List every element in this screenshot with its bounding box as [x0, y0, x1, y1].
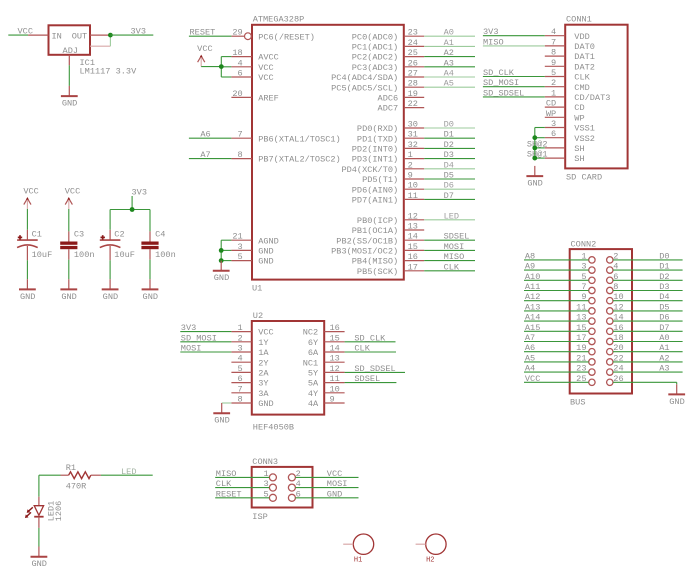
svg-text:PD1(TXD): PD1(TXD)	[357, 134, 398, 144]
svg-text:D4: D4	[444, 160, 454, 170]
svg-text:12: 12	[408, 211, 418, 221]
svg-text:SDSEL: SDSEL	[444, 232, 470, 242]
pin 10 U2	[324, 384, 344, 394]
svg-text:11: 11	[576, 302, 586, 312]
pin SH@1 CONN1	[527, 150, 565, 160]
pin 16 / net MISO	[404, 252, 475, 262]
svg-text:28: 28	[408, 79, 418, 89]
svg-text:NC1: NC1	[303, 358, 318, 368]
pin 28 / net A5	[404, 79, 475, 89]
svg-text:19: 19	[576, 343, 586, 353]
svg-text:C2: C2	[114, 230, 124, 240]
pin 7 U2	[231, 384, 251, 394]
svg-text:VSS2: VSS2	[574, 134, 595, 144]
pin 11 CONN2 / net A13	[524, 302, 595, 314]
pin 7 CONN1	[545, 37, 565, 47]
svg-text:2: 2	[613, 251, 618, 261]
svg-text:PC3(ADC3): PC3(ADC3)	[352, 63, 398, 73]
svg-text:RESET: RESET	[216, 489, 242, 499]
wire net CLK from U2	[345, 344, 396, 354]
svg-text:10: 10	[408, 181, 418, 191]
ground C2	[102, 279, 119, 302]
svg-text:14: 14	[408, 232, 418, 242]
svg-text:GND: GND	[62, 99, 77, 109]
svg-text:CLK: CLK	[444, 262, 460, 272]
net label RESET	[190, 28, 216, 38]
pin 5 U2	[231, 364, 251, 374]
svg-text:A1: A1	[444, 38, 454, 48]
svg-text:CONN2: CONN2	[571, 239, 597, 249]
svg-text:D2: D2	[659, 272, 669, 282]
pin 14 U2	[324, 344, 344, 354]
svg-text:3: 3	[581, 262, 586, 272]
wire net 3V3 to CONN1	[483, 27, 545, 37]
VCC power symbol (C3)	[65, 186, 80, 209]
svg-text:CONN3: CONN3	[252, 457, 278, 467]
ground U1	[213, 261, 230, 284]
svg-text:14: 14	[330, 344, 340, 354]
svg-text:24: 24	[408, 38, 418, 48]
svg-text:GND: GND	[214, 273, 229, 283]
pin 15 U2	[324, 333, 344, 343]
svg-text:A7: A7	[525, 333, 535, 343]
wire RESET	[189, 35, 232, 37]
svg-text:25: 25	[408, 48, 418, 58]
svg-text:PC1(ADC1): PC1(ADC1)	[352, 43, 398, 53]
svg-text:2: 2	[296, 469, 301, 479]
svg-text:31: 31	[408, 130, 418, 140]
svg-text:3V3: 3V3	[483, 27, 498, 37]
svg-text:A8: A8	[525, 251, 535, 261]
svg-text:LED: LED	[121, 467, 136, 477]
svg-text:PB6(XTAL1/TOSC1): PB6(XTAL1/TOSC1)	[258, 134, 341, 144]
pin 8 CONN2 / net D3	[607, 282, 683, 294]
svg-text:PD4(XCK/T0): PD4(XCK/T0)	[341, 165, 398, 175]
junction 3V3	[108, 33, 113, 38]
svg-text:D0: D0	[444, 120, 454, 130]
svg-text:3: 3	[551, 119, 556, 129]
buffer U2 HEF4050B	[252, 311, 324, 432]
pin 2 U2	[231, 333, 251, 343]
pin 22 CONN2 / net A2	[607, 353, 683, 365]
svg-text:A6: A6	[525, 343, 535, 353]
pin 11 / net D7	[404, 191, 475, 201]
pin 6 CONN3 / net GND	[288, 489, 358, 501]
svg-text:21: 21	[232, 232, 242, 242]
wire net SDSEL from U2	[345, 374, 397, 384]
svg-text:26: 26	[408, 58, 418, 68]
pin CD CONN1	[545, 99, 565, 109]
net label 3V3	[131, 27, 146, 37]
svg-text:17: 17	[576, 333, 586, 343]
svg-text:30: 30	[408, 120, 418, 130]
svg-text:2Y: 2Y	[258, 358, 268, 368]
svg-text:PC6(/RESET): PC6(/RESET)	[258, 32, 315, 42]
svg-text:ADJ: ADJ	[63, 46, 78, 56]
svg-text:4: 4	[238, 58, 243, 68]
svg-text:SDSEL: SDSEL	[354, 374, 380, 384]
pin 12 / net LED	[404, 211, 475, 221]
svg-text:6: 6	[296, 489, 301, 499]
svg-text:3: 3	[238, 344, 243, 354]
pin 23 / net A0	[404, 28, 475, 38]
svg-text:PB3(MOSI/OC2): PB3(MOSI/OC2)	[331, 247, 398, 257]
svg-text:C4: C4	[155, 230, 165, 240]
svg-text:PD0(RXD): PD0(RXD)	[357, 124, 398, 134]
pin 1 CONN1	[545, 88, 565, 98]
pin 6 CONN1	[545, 129, 565, 139]
svg-text:D5: D5	[444, 171, 454, 181]
svg-text:9: 9	[581, 292, 586, 302]
svg-text:24: 24	[613, 364, 623, 374]
pin 26 / net A3	[404, 58, 475, 68]
svg-text:ISP: ISP	[252, 512, 267, 522]
pin 19 CONN2 / net A6	[524, 343, 595, 355]
svg-text:15: 15	[408, 242, 418, 252]
pin 20 AREF	[231, 89, 252, 99]
svg-text:A6: A6	[200, 130, 210, 140]
wire net SD_CLK to CONN1	[483, 68, 545, 78]
svg-text:18: 18	[613, 333, 623, 343]
svg-text:SD_CLK: SD_CLK	[354, 333, 386, 343]
svg-text:CMD: CMD	[574, 83, 589, 93]
ground C4	[142, 279, 159, 302]
pin OUT2 feedback	[90, 35, 110, 46]
net label 3V3 (caps)	[132, 187, 147, 197]
svg-text:21: 21	[576, 353, 586, 363]
svg-text:5A: 5A	[308, 379, 319, 389]
svg-text:PB2(SS/OC1B): PB2(SS/OC1B)	[336, 236, 398, 246]
wire net SD_SDSEL from U2	[345, 364, 405, 374]
svg-text:MOSI: MOSI	[181, 344, 202, 354]
pin 3 U2	[231, 344, 251, 354]
svg-text:A10: A10	[525, 272, 540, 282]
svg-text:1: 1	[264, 469, 269, 479]
wire R1 to LED1	[38, 475, 40, 497]
svg-text:LED: LED	[444, 211, 459, 221]
svg-text:MOSI: MOSI	[327, 479, 348, 489]
wire 3V3 output	[110, 34, 153, 36]
svg-text:A14: A14	[525, 313, 540, 323]
pin 14 / net SDSEL	[404, 232, 475, 242]
ground C3	[60, 279, 77, 302]
pin SH@2 CONN1	[527, 139, 565, 149]
svg-text:H1: H1	[354, 557, 362, 565]
svg-text:GND: GND	[258, 247, 273, 257]
svg-text:C3: C3	[74, 230, 84, 240]
svg-text:CD: CD	[574, 103, 584, 113]
svg-text:RESET: RESET	[190, 28, 216, 38]
svg-text:ATMEGA328P: ATMEGA328P	[253, 15, 305, 25]
svg-text:15: 15	[576, 323, 586, 333]
svg-text:SD_CLK: SD_CLK	[483, 68, 515, 78]
svg-text:PC4(ADC4/SDA): PC4(ADC4/SDA)	[331, 73, 398, 83]
svg-text:C1: C1	[32, 230, 42, 240]
svg-text:VCC: VCC	[525, 374, 540, 384]
svg-text:HEF4050B: HEF4050B	[253, 422, 294, 432]
svg-text:4: 4	[238, 354, 243, 364]
svg-text:PB1(OC1A): PB1(OC1A)	[352, 226, 398, 236]
svg-text:4: 4	[296, 479, 301, 489]
svg-text:LM1117 3.3V: LM1117 3.3V	[80, 67, 138, 77]
wire 3V3 to C2/C4	[110, 196, 150, 210]
svg-text:23: 23	[576, 364, 586, 374]
pin 8 U2	[231, 395, 251, 405]
svg-text:D5: D5	[659, 302, 669, 312]
svg-text:NC2: NC2	[303, 328, 318, 338]
connector CONN1 SD CARD	[565, 15, 627, 183]
svg-text:20: 20	[232, 89, 242, 99]
svg-text:1: 1	[581, 251, 586, 261]
svg-text:PC5(ADC5/SCL): PC5(ADC5/SCL)	[331, 83, 398, 93]
pin 30 / net D0	[404, 120, 475, 130]
pin 21 GND	[221, 232, 252, 242]
pin 6 U2	[231, 374, 251, 384]
svg-text:6: 6	[551, 129, 556, 139]
wire net LED	[101, 467, 153, 477]
svg-text:3: 3	[264, 479, 269, 489]
pin 15 / net MOSI	[404, 242, 475, 252]
pin 5 CONN2 / net A10	[524, 272, 595, 284]
pin 8 / net A7	[189, 150, 252, 160]
svg-text:1: 1	[408, 150, 413, 160]
svg-text:GND: GND	[669, 397, 684, 407]
pin 4 CONN3 / net MOSI	[288, 479, 358, 491]
svg-text:D1: D1	[659, 262, 669, 272]
svg-text:SD_SDSEL: SD_SDSEL	[483, 88, 524, 98]
pin 8 CONN1	[545, 48, 565, 58]
svg-text:1206: 1206	[54, 501, 64, 521]
svg-text:WP: WP	[546, 109, 556, 119]
svg-text:VCC: VCC	[258, 63, 273, 73]
svg-text:5: 5	[238, 252, 243, 262]
svg-text:5: 5	[264, 489, 269, 499]
svg-text:4: 4	[613, 262, 618, 272]
svg-text:18: 18	[232, 48, 242, 58]
svg-text:9: 9	[330, 395, 335, 405]
svg-text:PB0(ICP): PB0(ICP)	[357, 216, 398, 226]
svg-text:16: 16	[330, 323, 340, 333]
pin 4	[231, 58, 252, 68]
VCC power symbol (C1)	[23, 186, 38, 209]
svg-text:MOSI: MOSI	[444, 242, 465, 252]
svg-text:D7: D7	[659, 323, 669, 333]
svg-text:17: 17	[408, 262, 418, 272]
svg-text:U2: U2	[253, 311, 263, 321]
pin 6	[231, 69, 252, 79]
pin 24 CONN2 / net A3	[607, 364, 683, 376]
wire net 3V3 to U2	[180, 323, 231, 333]
LED LED1 1206	[25, 497, 64, 528]
svg-text:MISO: MISO	[216, 469, 237, 479]
svg-text:AGND: AGND	[258, 236, 279, 246]
svg-text:3: 3	[238, 242, 243, 252]
svg-text:IN: IN	[52, 31, 62, 41]
svg-text:D6: D6	[659, 313, 669, 323]
svg-text:PD5(T1): PD5(T1)	[362, 175, 398, 185]
svg-text:12: 12	[330, 364, 340, 374]
pin 7 CONN2 / net A11	[524, 282, 595, 294]
svg-text:PB7(XTAL2/TOSC2): PB7(XTAL2/TOSC2)	[258, 155, 341, 165]
svg-text:11: 11	[408, 191, 418, 201]
svg-text:22: 22	[408, 99, 418, 109]
ground LED1	[31, 547, 48, 570]
svg-text:R1: R1	[66, 463, 76, 473]
svg-text:CLK: CLK	[574, 73, 590, 83]
pin 18 CONN2 / net A0	[607, 333, 683, 345]
svg-text:SD_MOSI: SD_MOSI	[181, 333, 217, 343]
pin 1 U2	[231, 323, 251, 333]
pin 10 / net D6	[404, 181, 475, 191]
svg-text:A0: A0	[444, 28, 454, 38]
svg-text:A2: A2	[659, 353, 669, 363]
svg-text:D7: D7	[444, 191, 454, 201]
connector CONN2 BUS	[570, 239, 632, 407]
pin 13 U2	[324, 354, 344, 364]
net label VCC	[18, 27, 33, 37]
pin 24 / net A1	[404, 38, 475, 48]
svg-text:GND: GND	[20, 292, 35, 302]
svg-text:10: 10	[330, 384, 340, 394]
svg-text:A1: A1	[659, 343, 669, 353]
svg-text:MISO: MISO	[444, 252, 465, 262]
svg-text:14: 14	[613, 313, 623, 323]
wire net MOSI to U2	[180, 344, 231, 354]
svg-text:PD2(INT0): PD2(INT0)	[352, 145, 398, 155]
svg-text:16: 16	[408, 252, 418, 262]
capacitor C2 (polarized)	[100, 210, 135, 280]
pin 6 CONN2 / net D2	[607, 272, 683, 284]
svg-text:A5: A5	[444, 79, 454, 89]
svg-text:23: 23	[408, 28, 418, 38]
svg-text:GND: GND	[258, 257, 273, 267]
pin 9 / net D5	[404, 171, 475, 181]
pin 16 CONN2 / net D7	[607, 323, 683, 335]
pin 14 CONN2 / net D6	[607, 313, 683, 325]
svg-text:GND: GND	[143, 292, 158, 302]
svg-text:1: 1	[238, 323, 243, 333]
svg-text:GND: GND	[527, 179, 542, 189]
svg-text:29: 29	[232, 28, 242, 38]
svg-text:26: 26	[613, 374, 623, 384]
wire net SD_SDSEL to CONN1	[483, 88, 545, 98]
pin 11 U2	[324, 374, 344, 384]
svg-text:D2: D2	[444, 140, 454, 150]
connector CONN3 ISP	[252, 457, 313, 522]
svg-text:2A: 2A	[258, 369, 269, 379]
resistor R1 470R	[39, 463, 101, 491]
svg-text:8: 8	[551, 48, 556, 58]
svg-text:AVCC: AVCC	[258, 53, 279, 63]
svg-text:16: 16	[613, 323, 623, 333]
svg-text:D4: D4	[659, 292, 669, 302]
svg-text:13: 13	[576, 313, 586, 323]
pin 17 CONN2 / net A7	[524, 333, 595, 345]
svg-text:6: 6	[238, 69, 243, 79]
svg-text:10: 10	[613, 292, 623, 302]
svg-text:PB4(MISO): PB4(MISO)	[352, 257, 398, 267]
svg-text:GND: GND	[31, 559, 46, 569]
capacitor C4 (ceramic)	[141, 210, 175, 280]
wire VCC to pins 18/4/6	[201, 57, 231, 77]
svg-text:GND: GND	[327, 489, 342, 499]
wire LED1 to ground	[38, 528, 40, 547]
junction VSS2/SH	[532, 135, 537, 140]
svg-text:22: 22	[613, 353, 623, 363]
svg-text:A0: A0	[659, 333, 669, 343]
svg-text:11: 11	[330, 374, 340, 384]
svg-text:7: 7	[581, 282, 586, 292]
mounting hole H1	[343, 534, 373, 565]
pin 2 CONN2 / net D0	[607, 251, 683, 263]
svg-text:SH: SH	[574, 154, 584, 164]
svg-text:WP: WP	[574, 113, 584, 123]
svg-text:DAT2: DAT2	[574, 62, 595, 72]
svg-text:20: 20	[613, 343, 623, 353]
svg-text:15: 15	[330, 333, 340, 343]
svg-text:7: 7	[238, 130, 243, 140]
svg-text:D3: D3	[659, 282, 669, 292]
svg-text:D1: D1	[444, 130, 454, 140]
svg-text:8: 8	[238, 395, 243, 405]
svg-text:8: 8	[238, 150, 243, 160]
ground IC1	[61, 86, 78, 109]
wire VSS/SH to GND	[535, 128, 545, 159]
pin 15 CONN2 / net A15	[524, 323, 595, 335]
svg-text:VCC: VCC	[327, 469, 342, 479]
svg-text:10uF: 10uF	[114, 250, 135, 260]
pin 32 / net D2	[404, 140, 475, 150]
svg-text:A7: A7	[200, 150, 210, 160]
svg-text:CLK: CLK	[354, 344, 370, 354]
svg-text:VCC: VCC	[258, 328, 273, 338]
svg-text:A2: A2	[444, 48, 454, 58]
svg-text:GND: GND	[103, 292, 118, 302]
svg-text:5: 5	[551, 68, 556, 78]
pin 7 / net A6	[189, 130, 252, 140]
pin 12 U2	[324, 364, 344, 374]
pin 22	[404, 99, 424, 109]
svg-text:VDD: VDD	[574, 32, 589, 42]
pin 18	[231, 48, 252, 58]
svg-text:AREF: AREF	[258, 94, 279, 104]
svg-text:A4: A4	[525, 364, 535, 374]
pin 5 CONN1	[545, 68, 565, 78]
svg-text:CONN1: CONN1	[566, 15, 592, 25]
pin 31 / net D1	[404, 130, 475, 140]
svg-text:PC0(ADC0): PC0(ADC0)	[352, 32, 398, 42]
junction GND pins	[219, 248, 224, 253]
svg-text:OUT: OUT	[72, 31, 87, 41]
pin 23 CONN2 / net A4	[524, 364, 595, 376]
svg-text:27: 27	[408, 69, 418, 79]
pin 9 U2	[324, 395, 344, 405]
pin 1 / net D3	[404, 150, 475, 160]
svg-text:PC2(ADC2): PC2(ADC2)	[352, 53, 398, 63]
pin 20 CONN2 / net A1	[607, 343, 683, 355]
pin 3 CONN1	[545, 119, 565, 129]
junction VCC	[219, 64, 224, 69]
pin 17 / net CLK	[404, 262, 475, 272]
mounting hole H2	[416, 534, 446, 565]
svg-text:2: 2	[408, 160, 413, 170]
capacitor C1 (polarized)	[17, 209, 52, 279]
svg-text:A11: A11	[525, 282, 540, 292]
pin 25 CONN2 / net VCC	[524, 374, 595, 386]
svg-text:2: 2	[551, 78, 556, 88]
pin 12 CONN2 / net D5	[607, 302, 683, 314]
ground U2	[213, 403, 230, 426]
